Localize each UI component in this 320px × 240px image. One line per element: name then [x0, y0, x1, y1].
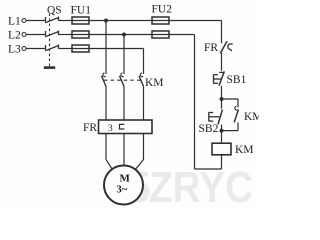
fuse FU1 pole 2 — [72, 31, 89, 38]
svg-text:L1: L1 — [8, 16, 21, 28]
svg-text:L2: L2 — [8, 30, 21, 42]
wire FR to motor left — [106, 134, 113, 171]
svg-text:SB1: SB1 — [227, 74, 247, 86]
FR heater element symbol — [120, 124, 125, 129]
svg-text:KM: KM — [145, 77, 164, 89]
switch QS pole 2 — [45, 31, 59, 37]
junction row1 — [104, 19, 108, 23]
contactor KM main pole 2 — [120, 35, 125, 121]
pushbutton SB1 (NC stop) — [214, 71, 225, 85]
fuse FU2 pole 1 — [152, 17, 169, 24]
svg-text:FR: FR — [83, 122, 97, 134]
wire SB2 to node B — [221, 124, 223, 130]
wire row3 FU1 to corner — [89, 48, 144, 50]
svg-text:FR: FR — [204, 42, 218, 54]
wire coil to bottom — [221, 155, 223, 169]
wire FR to motor middle — [123, 134, 125, 167]
wire L3 to QS — [26, 48, 45, 50]
wire row2 FU1 to left-rail corner — [89, 34, 195, 36]
wire row1 FU1 to control corner — [89, 20, 222, 22]
wire L1 to QS — [26, 20, 45, 22]
svg-text:FU2: FU2 — [152, 4, 173, 16]
wire QS to FU1 row1 — [59, 20, 73, 22]
contactor KM main pole 3 — [139, 49, 144, 121]
wire left rail — [194, 35, 196, 170]
pushbutton SB2 (NO start) — [209, 110, 223, 125]
terminal L2 — [22, 33, 26, 37]
svg-text:3: 3 — [108, 124, 113, 134]
svg-text:ZRYC: ZRYC — [149, 164, 253, 211]
fuse FU2 pole 2 — [152, 31, 169, 38]
QS handle bar — [44, 66, 55, 69]
wire FR to motor right — [134, 134, 143, 171]
terminal L1 — [22, 19, 26, 23]
KM main linkage dashed line — [104, 79, 142, 81]
terminal L3 — [22, 47, 26, 51]
svg-text:3~: 3~ — [117, 185, 128, 196]
coil KM — [212, 143, 231, 155]
wire QS to FU1 row2 — [59, 34, 73, 36]
switch QS pole 1 — [45, 17, 59, 23]
thermal contact FR (NC) — [220, 41, 233, 53]
fuse FU1 pole 3 — [72, 45, 89, 52]
svg-text:KM: KM — [235, 144, 254, 156]
contactor KM main pole 1 — [102, 21, 107, 121]
junction node B — [220, 129, 224, 133]
wire KM aux to node B — [222, 130, 239, 132]
QS linkage dashed line — [49, 14, 51, 67]
contactor KM aux contact (NO) — [234, 99, 238, 131]
wire control column top — [221, 21, 223, 44]
wire bottom return — [195, 168, 222, 170]
junction row2 — [122, 33, 126, 37]
wire SB1 to node A — [221, 86, 223, 99]
wire FR contact to SB1 — [221, 53, 223, 71]
wire node A to KM aux branch — [222, 98, 239, 100]
wire QS to FU1 row3 — [59, 48, 73, 50]
thermal relay FR heater box — [99, 120, 153, 134]
switch QS pole 3 — [45, 45, 59, 51]
wire node A to SB2 — [221, 99, 223, 109]
svg-text:L3: L3 — [8, 44, 21, 56]
svg-text:FU1: FU1 — [71, 5, 92, 17]
wire node B to coil — [221, 131, 223, 144]
junction node A — [220, 97, 224, 101]
motor M circle — [104, 166, 143, 205]
svg-text:M: M — [120, 173, 131, 185]
wire L2 to QS — [26, 34, 45, 36]
fuse FU1 pole 1 — [72, 17, 89, 24]
svg-text:KM: KM — [244, 111, 259, 123]
svg-text:SB2: SB2 — [199, 123, 219, 135]
